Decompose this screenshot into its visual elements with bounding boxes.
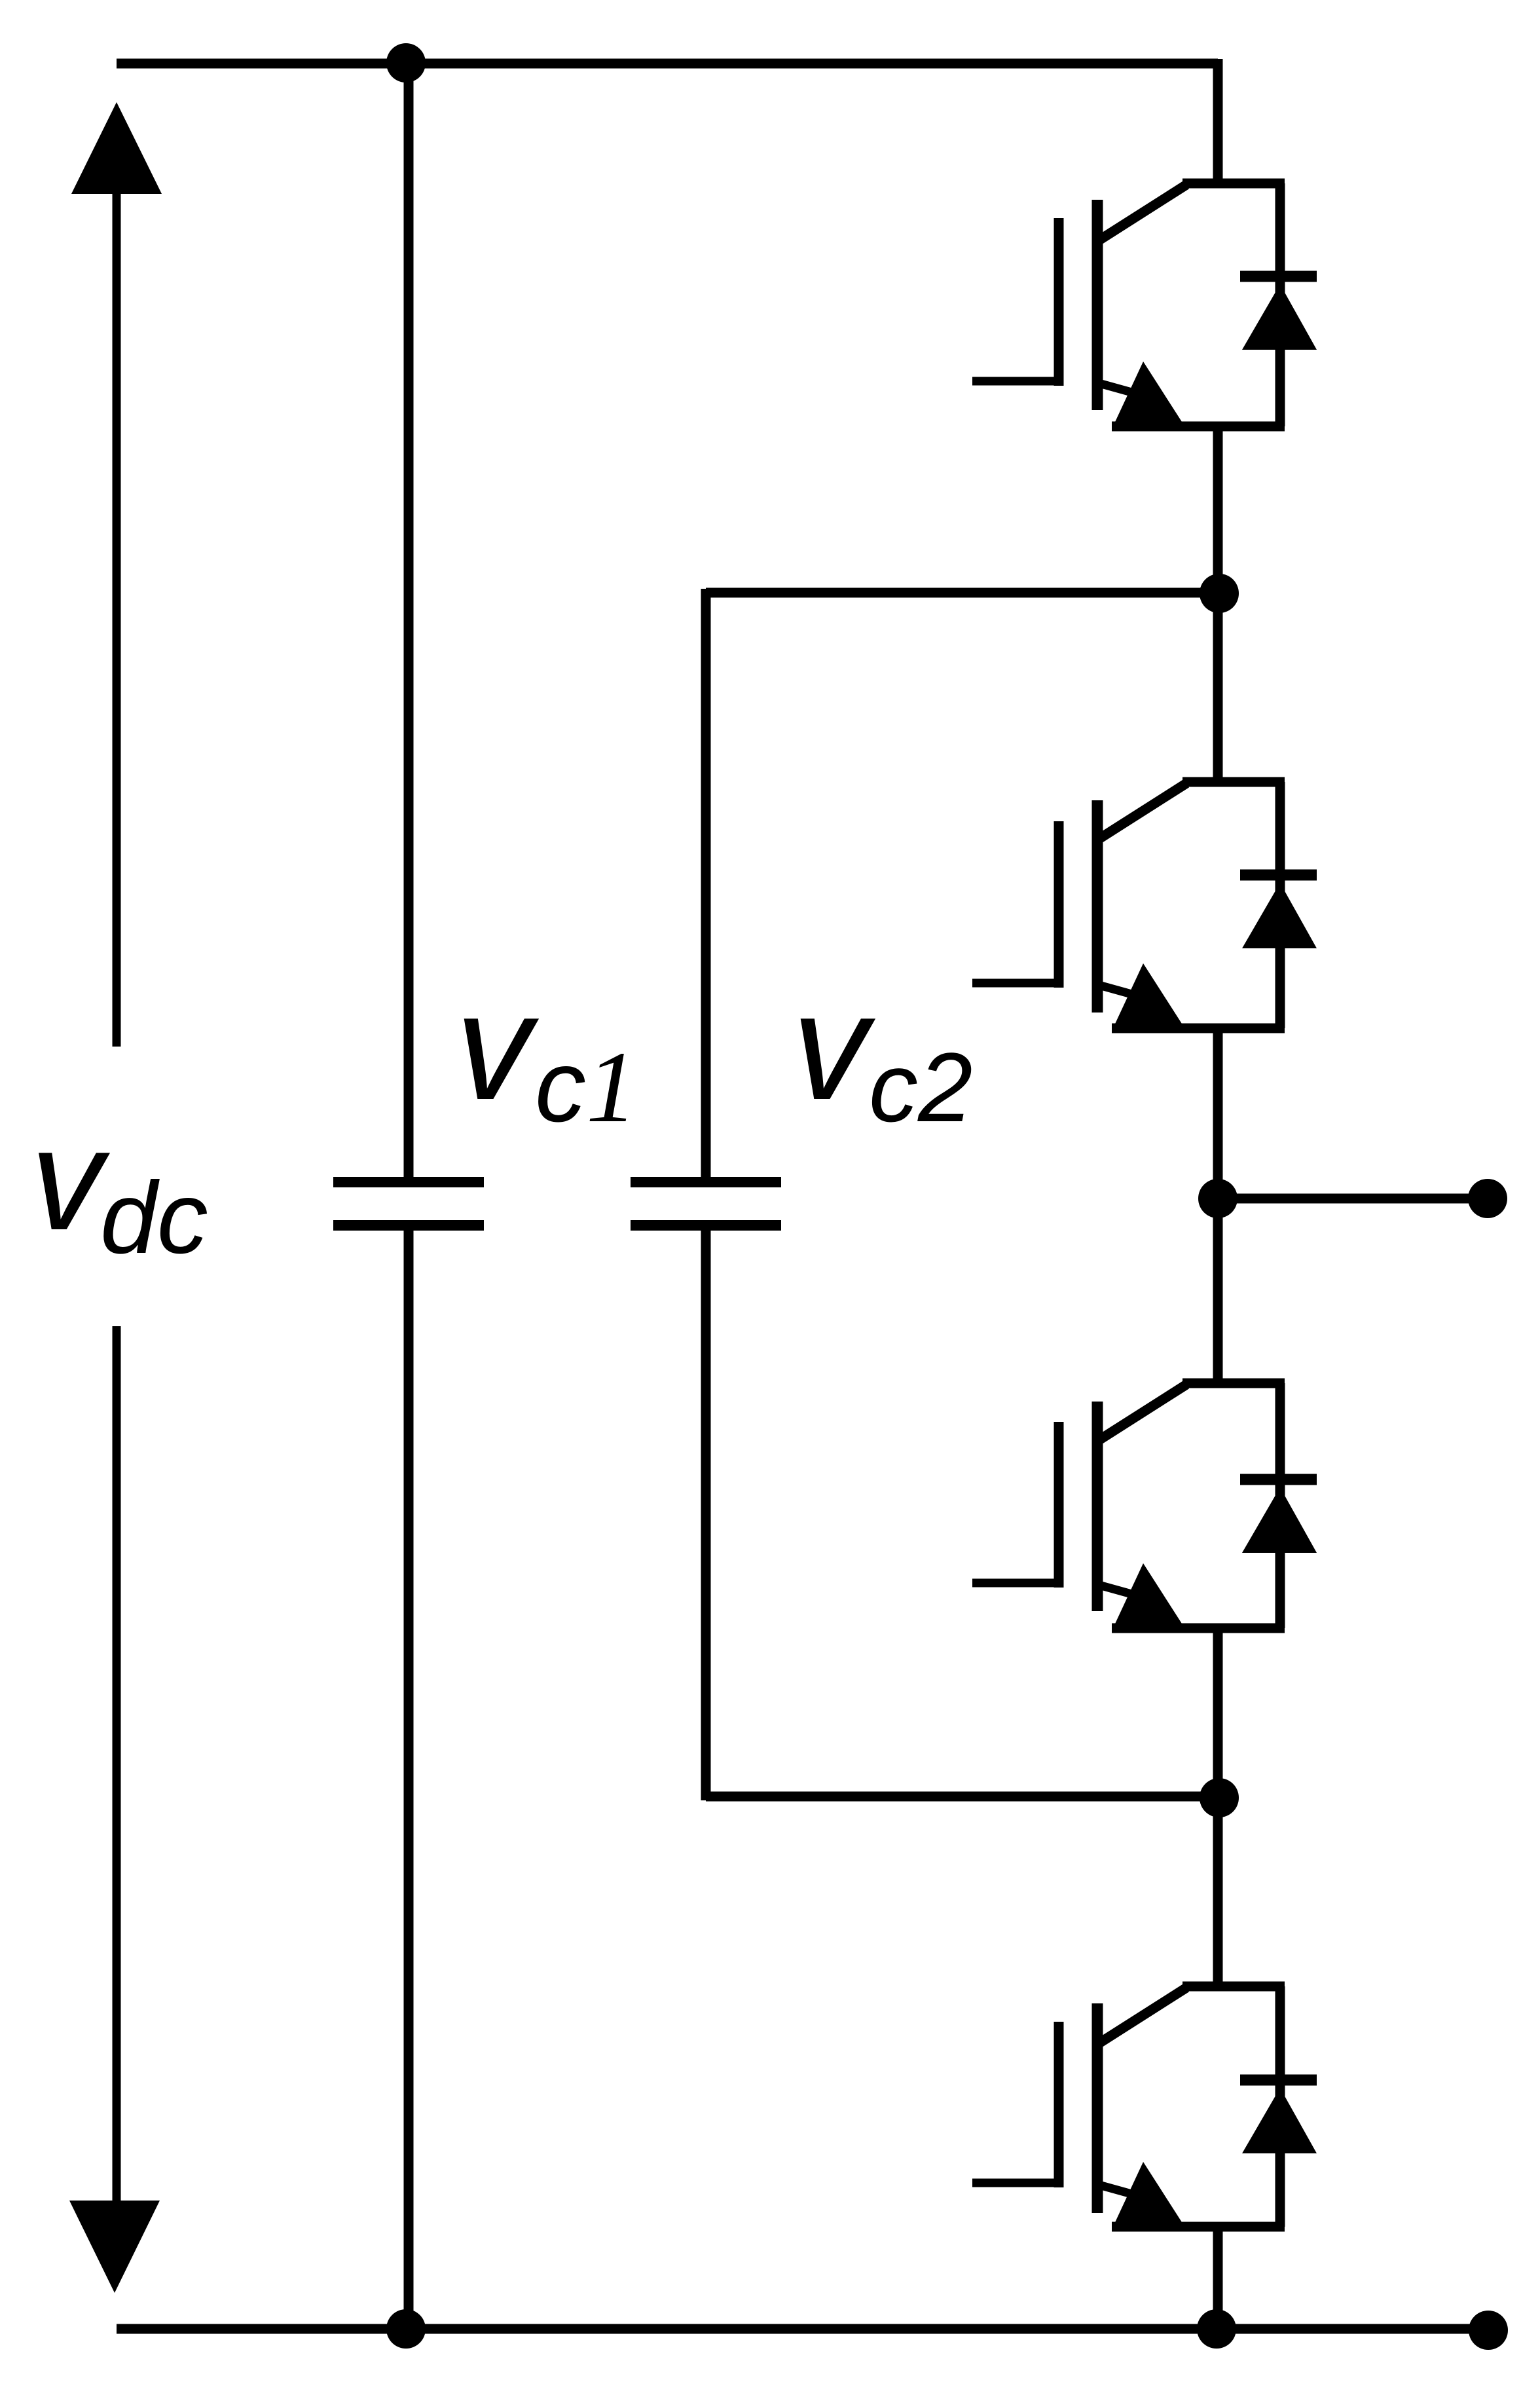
- diode D4: [1240, 1986, 1317, 2227]
- transistor Q2 (IGBT): [972, 783, 1186, 1031]
- svg-text:v: v: [31, 1098, 111, 1260]
- wire: Q2 emitter link: [1112, 1024, 1285, 1033]
- label Vdc: [31, 1098, 208, 1275]
- wire: right rail bottom segment: [1213, 2225, 1223, 2329]
- capacitor C2 top lead: [701, 589, 711, 1177]
- capacitor C2 plates: [631, 1182, 781, 1225]
- transistor Q4 (IGBT): [972, 1988, 1186, 2229]
- label Vc1: [456, 962, 637, 1143]
- wire: flying capacitor top link: [706, 588, 1219, 598]
- wire: right rail Q3-Q4 segment: [1213, 1626, 1223, 1988]
- node: output terminal: [1468, 1179, 1507, 1218]
- svg-text:dc: dc: [100, 1161, 208, 1275]
- Vdc measurement arrow upper stem: [113, 189, 121, 1047]
- svg-text:v: v: [456, 962, 540, 1132]
- wire: Q3 collector link: [1182, 1379, 1285, 1388]
- node: Q3/Q4 junction: [1200, 1778, 1239, 1817]
- wire: Q2 collector link: [1182, 777, 1285, 787]
- wire: Q1 emitter link: [1112, 422, 1285, 432]
- transistor Q3 (IGBT): [972, 1384, 1186, 1631]
- capacitor C2 bottom lead: [701, 1231, 711, 1800]
- svg-text:c1: c1: [535, 1030, 637, 1143]
- wire: right rail Q1-Q2 segment: [1213, 424, 1223, 784]
- node: top bus / C1 junction: [386, 43, 426, 83]
- Vdc measurement arrow lower stem: [113, 1326, 121, 2208]
- Vdc measurement arrow up head: [71, 102, 162, 194]
- node: bottom terminal: [1469, 2311, 1508, 2350]
- Vdc measurement arrow down head: [69, 2201, 160, 2293]
- wire: Q4 collector link: [1182, 1982, 1285, 1992]
- diode D2: [1240, 782, 1317, 1028]
- wire: right rail top segment: [1213, 59, 1223, 185]
- wire: top DC bus: [117, 59, 1218, 69]
- node: Q1/Q2 junction: [1200, 574, 1239, 613]
- transistor Q1 (IGBT): [972, 185, 1186, 429]
- label Vc2: [792, 962, 972, 1142]
- diode D3: [1240, 1383, 1317, 1628]
- svg-text:c2: c2: [869, 1032, 972, 1142]
- wire: output lead: [1218, 1194, 1488, 1204]
- wire: Q3 emitter link: [1112, 1624, 1285, 1633]
- node: output junction: [1198, 1179, 1237, 1218]
- diode D1: [1240, 183, 1317, 426]
- wire: flying capacitor bottom link: [706, 1792, 1219, 1802]
- capacitor C1 plates: [333, 1182, 484, 1225]
- node: bottom bus / C1 junction: [386, 2309, 426, 2349]
- node: bottom bus / rail junction: [1197, 2309, 1236, 2349]
- wire: Q4 emitter link: [1112, 2222, 1285, 2232]
- wire: Q1 collector link: [1182, 179, 1285, 189]
- svg-text:v: v: [792, 962, 876, 1132]
- wire: bottom DC bus: [117, 2324, 1488, 2334]
- capacitor C1 top lead: [404, 63, 414, 1177]
- capacitor C1 bottom lead: [404, 1231, 414, 2329]
- wire: right rail Q2-Q3 segment: [1213, 1026, 1223, 1385]
